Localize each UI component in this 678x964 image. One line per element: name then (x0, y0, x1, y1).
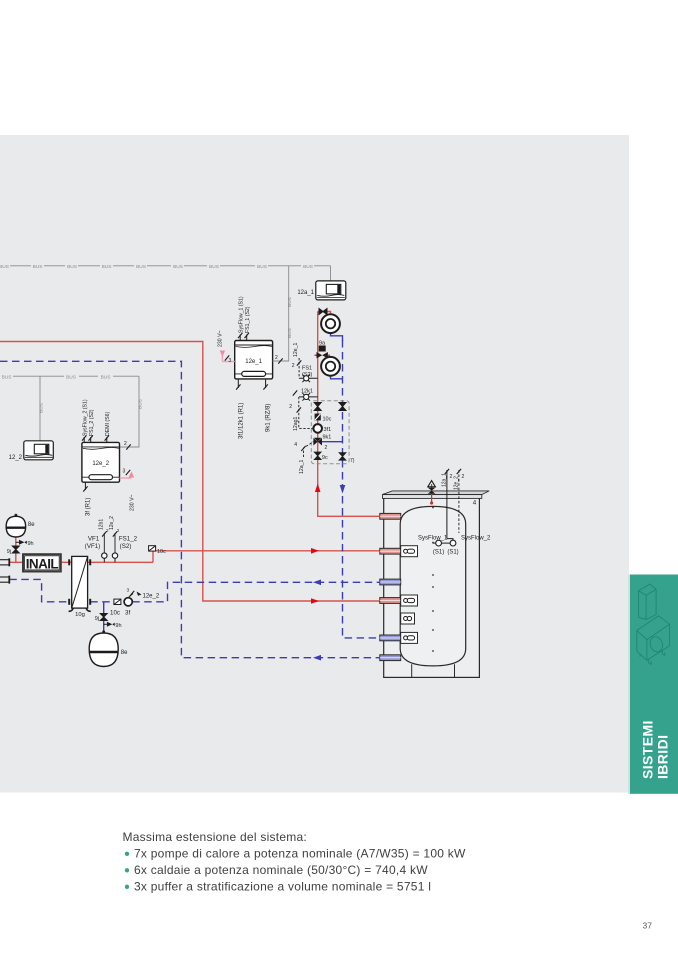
safety group INAIL (23, 554, 61, 571)
svg-text:FS1: FS1 (302, 366, 312, 372)
svg-text:2: 2 (325, 445, 328, 451)
svg-text:(VF1): (VF1) (85, 543, 100, 550)
svg-text:9c: 9c (322, 455, 328, 461)
svg-text:SysFlow_2: SysFlow_2 (461, 536, 491, 542)
valve shutoff below 12a_1 (319, 309, 327, 315)
wire bus link of 12e_1 with slash 2 (273, 355, 289, 364)
schematic gray panel (0, 135, 629, 793)
pump U2 boiler circulator (321, 357, 340, 376)
svg-text:BUS: BUS (67, 264, 77, 270)
arrow red flow into tank port 2 (311, 548, 319, 554)
svg-text:3f1: 3f1 (324, 427, 332, 433)
svg-text:37: 37 (643, 921, 653, 931)
svg-text:INAIL: INAIL (26, 556, 59, 571)
heat-exchanger 10g (69, 556, 91, 618)
svg-text:FS1_2: FS1_2 (119, 536, 138, 543)
svg-text:230 V~: 230 V~ (130, 494, 136, 511)
svg-text:BUS: BUS (33, 264, 43, 270)
tank outer casing (384, 494, 480, 677)
caption bullet 2 (125, 863, 428, 877)
node tank port 5 (well only) (401, 613, 415, 624)
svg-text:10c: 10c (323, 417, 332, 423)
svg-text:4: 4 (294, 442, 297, 448)
boiler 12e_2 (82, 442, 120, 482)
svg-text:7x pompe di calore a potenza n: 7x pompe di calore a potenza nominale (A… (134, 846, 466, 860)
controller 12_2 (9, 441, 54, 461)
svg-text:(S2): (S2) (120, 543, 132, 550)
node tank port 7 (blue) (380, 655, 401, 661)
svg-text:9j: 9j (7, 549, 11, 555)
node tank port 2 (red with well) (380, 546, 418, 557)
svg-text:12a_1: 12a_1 (441, 473, 447, 487)
svg-text:BUS: BUS (101, 374, 111, 380)
wire sensor 12a_1 to tank (441, 469, 452, 539)
wire sensor SysFlow_2 (S1) of 12e_2 (82, 399, 88, 442)
valve motorized 9a (315, 341, 331, 359)
wire 230V feed of 12e_1 (217, 330, 234, 364)
svg-text:3: 3 (123, 469, 126, 475)
svg-text:4: 4 (473, 500, 477, 507)
svg-text:3x puffer a stratificazione a: 3x puffer a stratificazione a volume nom… (134, 879, 431, 893)
wire red INAIL line (9, 561, 153, 563)
svg-text:BUS: BUS (303, 264, 313, 270)
icon heat pump outdoor unit (637, 616, 670, 665)
svg-text:BUS: BUS (102, 264, 112, 270)
valve balancing 10c manifold (315, 414, 332, 423)
svg-text:(S1): (S1) (433, 550, 444, 556)
svg-text:10c: 10c (110, 610, 120, 617)
node supply stub left (to INAIL) (0, 558, 9, 566)
wire BUS vertical to boiler 12e_1 (273, 266, 293, 361)
svg-text:3: 3 (229, 358, 232, 364)
svg-text:9h: 9h (115, 623, 121, 629)
side tab SISTEMI IBRIDI (629, 575, 678, 794)
pump 3f1 manifold (313, 424, 331, 433)
node tank port 6 (blue with well) (380, 632, 418, 643)
sensor VF1 (85, 519, 109, 563)
wire red drop from expansion vessel 8e upper (15, 537, 17, 562)
label SISTEMI (639, 720, 655, 779)
svg-text:BUS: BUS (136, 264, 146, 270)
svg-text:2: 2 (275, 355, 278, 361)
svg-text:9k1 (RZ/8): 9k1 (RZ/8) (266, 404, 272, 432)
valve shutoff manifold bottom right (339, 453, 346, 461)
svg-text:(S1): (S1) (447, 550, 458, 556)
node tank port 3 (blue) (380, 579, 401, 585)
svg-text:9j: 9j (95, 616, 99, 622)
node tank port 4 (red with well) (380, 595, 418, 606)
svg-text:3f: 3f (125, 610, 130, 617)
svg-text:DEMI (S6): DEMI (S6) (105, 412, 111, 436)
svg-text:SISTEMI: SISTEMI (639, 720, 655, 779)
svg-text:12_2: 12_2 (9, 455, 23, 461)
tank lid (383, 491, 490, 499)
controller 12a_1 (297, 281, 345, 300)
wire sensor 12e_2 to tank (dashed) (453, 469, 464, 533)
wire sensor FS1_2 (S2) of 12e_2 (89, 409, 95, 442)
sensor FS1 (S2) (292, 342, 318, 382)
svg-text:10c: 10c (157, 549, 166, 555)
svg-text:BUS: BUS (66, 374, 76, 380)
svg-text:BUS: BUS (173, 264, 183, 270)
wire sensor DEMI (S6) of 12e_2 (105, 412, 111, 443)
page number 37 (643, 921, 653, 931)
wire red riser of heat-pump column (318, 312, 380, 517)
svg-text:12e_2: 12e_2 (453, 476, 459, 490)
boiler 12e_1 (235, 341, 273, 379)
pump U1 heat pump circulator (321, 314, 340, 333)
svg-text:Massima estensione del sistema: Massima estensione del sistema: (123, 830, 308, 844)
svg-text:BUS: BUS (2, 374, 12, 380)
wire blue heat-pump column down to tank port 6 (343, 340, 380, 638)
caption bullet 1 (125, 846, 466, 860)
valve shutoff manifold top right (339, 403, 346, 411)
svg-text:12e_1: 12e_1 (293, 342, 299, 357)
wire sensor SysFlow_1 (S1) of 12e_1 (238, 296, 244, 340)
svg-text:230 V~: 230 V~ (217, 330, 223, 347)
node stratification dots (432, 507, 434, 652)
svg-text:2: 2 (462, 474, 465, 480)
svg-text:VF1: VF1 (88, 536, 100, 543)
wire actuator output 3f (R1) of 12e_2 (83, 482, 91, 516)
bus line BUS1 (top horizontal) (0, 264, 331, 270)
svg-text:FS1_2 (S2): FS1_2 (S2) (89, 409, 95, 436)
wire actuator output 3f1/12k1 (R1) of 12e_1 (236, 379, 244, 439)
capacitor expansion vessel 8e upper (6, 514, 35, 537)
valve balancing 10c (exchanger supply) (149, 546, 167, 555)
valve drain 9h lower (104, 622, 122, 629)
valve shutoff 9j lower (95, 614, 107, 623)
svg-text:2: 2 (289, 404, 292, 410)
pump 3f (124, 588, 160, 617)
valve check 9c manifold (314, 452, 328, 461)
arrow red flow into tank port 4 (311, 598, 319, 604)
wire blue return loop B2 (left circuit to tank port 7) (0, 361, 380, 657)
svg-text:9k1: 9k1 (323, 435, 332, 441)
svg-text:6x caldaie a potenza nominale: 6x caldaie a potenza nominale (50/30°C) … (134, 863, 428, 877)
valve shutoff 9j upper (7, 546, 20, 555)
svg-text:FS1_1 (S2): FS1_1 (S2) (245, 306, 251, 333)
wire BUS1 drop to controller 12a_1 (330, 266, 332, 281)
icon heat pump indoor unit (639, 584, 657, 620)
sensor 12k1 (293, 389, 318, 401)
wire blue elbow from pump U1 (331, 333, 343, 341)
svg-text:12a_1: 12a_1 (297, 290, 314, 296)
sensor SysFlow_2 (S1) in tank (447, 536, 491, 556)
svg-text:SysFlow_1 (S1): SysFlow_1 (S1) (238, 296, 244, 333)
svg-text:BUS: BUS (257, 264, 267, 270)
svg-text:3: 3 (127, 588, 130, 594)
svg-text:12k1: 12k1 (301, 389, 313, 395)
wire sensor FS1_1 (S2) of 12e_1 (245, 306, 251, 340)
svg-text:BUS: BUS (0, 264, 9, 270)
svg-text:2: 2 (292, 363, 295, 369)
svg-text:2: 2 (450, 474, 453, 480)
wire blue drop to expansion vessel 8e lower (103, 602, 105, 633)
node return stub left (blue) (0, 576, 9, 584)
svg-text:8e: 8e (28, 522, 35, 528)
label 4 tank (473, 500, 477, 507)
svg-text:8e: 8e (121, 650, 128, 656)
svg-text:10g: 10g (75, 612, 85, 618)
label IBRIDI (654, 735, 670, 779)
wire blue elbow from pump U2 (331, 376, 343, 379)
svg-text:BUS: BUS (287, 297, 293, 307)
valve drain 9h upper (16, 540, 34, 547)
label 12ag1 manifold left upper (289, 397, 313, 431)
arrow blue flow from tank port 7 (313, 655, 321, 661)
label 12a_1 manifold left lower (294, 442, 313, 474)
tank vessel body (400, 506, 466, 677)
svg-text:12b1: 12b1 (99, 519, 105, 530)
wire blue from left stub to heat exchanger (9, 579, 69, 601)
node tank port 1 (red) (380, 513, 401, 519)
wire bus link of 12e_2 with slash 2 (124, 441, 131, 450)
svg-text:12e_2: 12e_2 (109, 516, 115, 530)
arrow red flow up heat-pump column (315, 484, 321, 493)
svg-text:12ag1: 12ag1 (293, 416, 299, 431)
svg-text:SysFlow_1: SysFlow_1 (418, 536, 448, 542)
svg-text:12e_1: 12e_1 (245, 359, 262, 365)
svg-text:12e_2: 12e_2 (92, 461, 109, 467)
arrow blue flow down to tank port 6 (340, 485, 346, 494)
caption bullet 3 (125, 879, 431, 893)
arrow blue flow from tank port 3 (313, 580, 321, 586)
wire BUS2 corner down to boiler 12e_2 (120, 376, 144, 447)
svg-text:SysFlow_2 (S1): SysFlow_2 (S1) (82, 399, 88, 436)
valve vent on tank top (428, 481, 436, 505)
sensor FS1_2 (S2) (109, 516, 137, 562)
svg-text:12a_1: 12a_1 (299, 459, 305, 474)
svg-text:BUS: BUS (209, 264, 219, 270)
svg-text:2: 2 (117, 528, 120, 533)
wire red supply R2 (heat exchanger to tank port 2) (153, 551, 380, 563)
caption heading (123, 830, 308, 844)
manifold group box (311, 401, 354, 464)
svg-text:BUS: BUS (138, 399, 144, 409)
wire 230V feed of 12e_2 (120, 469, 136, 512)
svg-text:BUS: BUS (287, 328, 293, 338)
svg-text:3f1/12k1 (R1): 3f1/12k1 (R1) (238, 403, 244, 439)
wire actuator output 9k1 (RZ/8) of 12e_1 (263, 379, 271, 432)
svg-text:9h: 9h (28, 541, 34, 547)
svg-text:IBRIDI: IBRIDI (654, 735, 670, 779)
capacitor expansion vessel 8e lower (89, 630, 128, 666)
wire blue return B1 (heat exchanger to tank port 3) (90, 582, 380, 602)
svg-text:BUS: BUS (39, 403, 45, 413)
svg-text:2: 2 (124, 441, 127, 447)
svg-text:12e_2: 12e_2 (143, 594, 160, 600)
svg-text:(S2): (S2) (302, 372, 313, 378)
valve shutoff manifold top left (314, 403, 321, 411)
wire BUS2 drop to controller 12_2 (39, 376, 45, 441)
valve balancing 10c (exchanger return) (110, 599, 121, 616)
sensor SysFlow_1 (S1) in tank (418, 536, 450, 556)
svg-text:3f (R1): 3f (R1) (85, 498, 91, 516)
wire red supply loop R1 (left boiler circuit to tank port 4) (0, 342, 380, 602)
bus line BUS2 (left horizontal) (2, 374, 139, 380)
svg-text:7): 7) (350, 458, 355, 464)
valve mixing 9k1 manifold (313, 435, 342, 452)
